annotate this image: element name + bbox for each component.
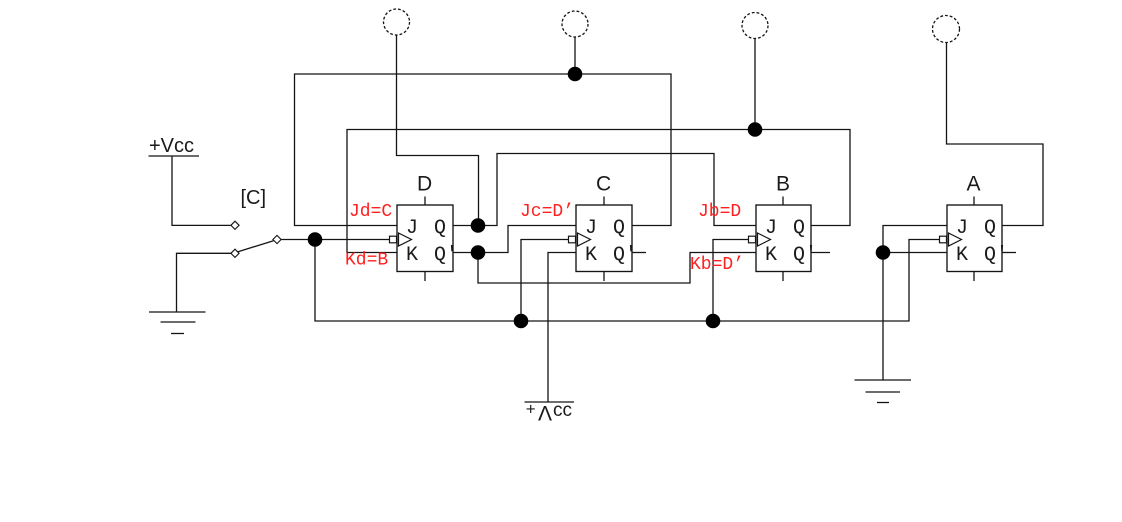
svg-text:Λ: Λ: [538, 403, 552, 426]
svg-text:K: K: [585, 244, 597, 267]
svg-text:Jd=C: Jd=C: [349, 202, 392, 222]
svg-text:Jc=D’: Jc=D’: [520, 202, 574, 222]
svg-text:Q: Q: [613, 217, 625, 240]
svg-text:C: C: [596, 173, 611, 196]
svg-text:+: +: [526, 400, 536, 419]
svg-text:Q': Q': [613, 244, 637, 267]
svg-text:[C]: [C]: [241, 187, 267, 209]
svg-text:K: K: [406, 244, 418, 267]
svg-text:+Vcc: +Vcc: [149, 135, 194, 157]
svg-text:K: K: [956, 244, 968, 267]
svg-text:Q: Q: [984, 217, 996, 240]
svg-text:B: B: [776, 173, 790, 196]
svg-text:Q': Q': [434, 244, 458, 267]
svg-text:Q: Q: [793, 217, 805, 240]
svg-text:K: K: [765, 244, 777, 267]
svg-text:Q: Q: [434, 217, 446, 240]
svg-text:J: J: [585, 217, 597, 240]
svg-text:cc: cc: [553, 400, 572, 421]
svg-text:J: J: [956, 217, 968, 240]
svg-text:Q': Q': [984, 244, 1008, 267]
svg-text:Kd=B: Kd=B: [345, 251, 388, 271]
svg-text:Jb=D: Jb=D: [698, 202, 741, 222]
svg-text:J: J: [765, 217, 777, 240]
svg-text:D: D: [417, 173, 432, 196]
svg-text:A: A: [967, 173, 981, 196]
svg-text:J: J: [406, 217, 418, 240]
svg-text:Kb=D’: Kb=D’: [690, 255, 744, 275]
svg-text:Q': Q': [793, 244, 817, 267]
